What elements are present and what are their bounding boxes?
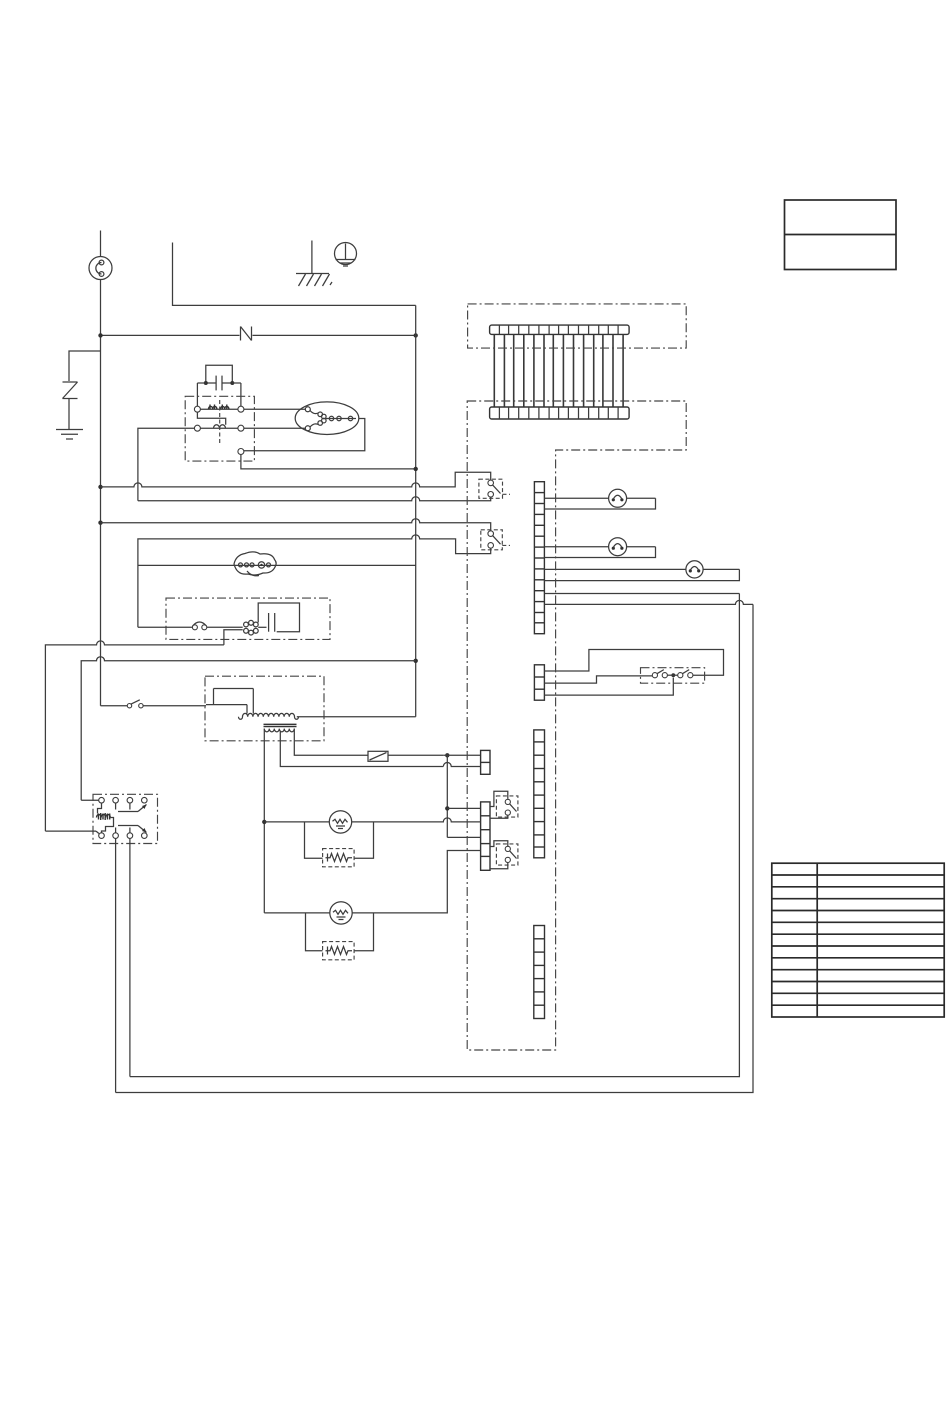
ground: chassis earth xyxy=(296,241,332,287)
wire primary to right bus xyxy=(297,716,416,718)
node: junction x=447.3 y=756.9 xyxy=(445,753,449,757)
wire W3 to door switch SW2 (hop at 415.7) xyxy=(101,519,491,531)
connector CN-C xyxy=(481,750,490,774)
oven lamp LP1 xyxy=(609,489,627,507)
transformer primary winding xyxy=(239,713,299,719)
wire: top loop x=172.5 / y=305.4 xyxy=(173,243,416,306)
relay output wires down xyxy=(115,838,117,1092)
ground: protective earth symbol in circle xyxy=(335,243,357,267)
terminal R2 xyxy=(238,425,244,431)
resistor R2 loop xyxy=(306,913,374,960)
wire feed y=644.9 (hop at 100.5) xyxy=(45,641,224,831)
wire from feed up into convection motor xyxy=(224,630,243,645)
door switch SW1 xyxy=(479,479,510,498)
connector strip CN-A seg3 xyxy=(534,730,545,858)
wire to CN-D cell1 xyxy=(447,807,480,809)
wire R2 to motor xyxy=(244,427,305,429)
relay contact 1 xyxy=(116,803,147,812)
door switch SW2 xyxy=(481,530,510,550)
bottom frame wire inner xyxy=(130,594,740,1077)
oven lamp LP3 loop xyxy=(544,569,739,580)
wire jog between filter rows xyxy=(197,412,225,425)
node: junction x=447.3 y=808.4 xyxy=(445,806,449,810)
relay RY1 box xyxy=(93,794,158,843)
varistor Z1 xyxy=(63,382,78,429)
terminal R1 xyxy=(238,406,244,412)
turntable motor TTM xyxy=(234,552,276,576)
fan motor FM2 xyxy=(329,811,351,833)
node: junction W1 xyxy=(98,485,102,489)
connector strip CN-A seg2 xyxy=(534,665,544,700)
terminal B (filter bottom) xyxy=(238,449,244,455)
wire terminal B down to right bus xyxy=(241,455,416,469)
connector CN-D xyxy=(481,802,490,870)
wire into thermal protector xyxy=(138,626,192,628)
ribbon connector top strip xyxy=(490,325,629,334)
ribbon connector bottom strip xyxy=(490,407,629,419)
wire into relay top-left xyxy=(81,799,99,801)
main switch SW3 xyxy=(101,700,207,708)
wire fan motor FM3 line xyxy=(264,912,330,914)
ribbon wires xyxy=(494,334,623,407)
control board outline (dash-dot) xyxy=(467,401,686,1050)
fan motor FM1 xyxy=(295,402,359,435)
revision box (top right) xyxy=(785,200,897,270)
wire W1 to door switch SW1 (hops at 137.9 and 415.7) xyxy=(101,472,491,487)
capacitor C2 loop xyxy=(258,603,299,632)
wire to CN-D cell3 xyxy=(447,836,480,838)
secondary lead 1 (long, to fan motors) xyxy=(263,729,265,913)
terminal L1 xyxy=(194,406,200,412)
wire W2 from SW1 bottom back left (hop at 415.7) xyxy=(138,497,491,501)
transformer secondary winding xyxy=(264,729,294,732)
wire x=447.3 down xyxy=(446,755,448,837)
wire to connector CN-C top xyxy=(443,754,480,756)
capacitor C1 across filter xyxy=(197,365,241,406)
ground: earth under varistor xyxy=(56,430,83,440)
varistor branch wire xyxy=(69,351,101,381)
bake switch SW4 (double) xyxy=(641,668,705,684)
node: junction W3 xyxy=(98,521,102,525)
node: junction fan tap y=821.9 xyxy=(262,820,266,824)
wire motor return to terminal B xyxy=(244,419,365,451)
secondary lead 2 xyxy=(280,731,443,767)
wire W4 from SW2 bottom to TT branch (hop at 415.7) xyxy=(138,535,491,627)
wire y=604.4 to outer frame (hop at 739.4) xyxy=(544,600,753,604)
connector strip CN-A seg4 xyxy=(534,926,545,1019)
wire R1 to motor xyxy=(244,408,305,410)
wire fan motor FM2 line (hop at 447.3) xyxy=(264,818,480,822)
power plug P1 xyxy=(89,231,112,336)
secondary lead 3 xyxy=(294,729,367,756)
bake relay switch loop wire 3 (center tap) xyxy=(544,678,673,696)
wire into relay bottom-left xyxy=(45,830,96,832)
fuse F2 (boxed) xyxy=(368,751,443,761)
oven lamp LP1 loop xyxy=(544,498,655,509)
node: junction at right bus y=468.9 xyxy=(414,467,418,471)
wire y=766.5 hop at 447.3 into CN-C xyxy=(443,763,480,767)
relay contact 2 xyxy=(116,826,147,833)
wire: mains line y=335.4 with fuse xyxy=(101,334,240,336)
relay coil xyxy=(97,803,114,833)
wire: right bus x=415.7 xyxy=(415,305,417,716)
fuse F1 (N symbol) xyxy=(241,327,252,341)
bake relay switch loop wire 2 xyxy=(544,676,652,683)
transformer core xyxy=(264,724,297,726)
node: junction right bus / mains line xyxy=(414,333,418,337)
display board outline (dash-dot) xyxy=(468,304,687,348)
transformer T1 box xyxy=(205,676,324,741)
convection motor winding xyxy=(244,620,259,635)
wire relay feed y=660.7 (hop at 100.5) xyxy=(81,657,416,801)
relay terminals bottom xyxy=(99,833,105,839)
choke coil row2 xyxy=(200,400,238,444)
noise filter NF1 box xyxy=(185,396,254,461)
micro switch MS1 xyxy=(490,791,518,818)
wire: left bus x=100.5 xyxy=(100,335,102,705)
node: junction left bus / mains line xyxy=(98,333,102,337)
oven lamp LP2 loop xyxy=(544,547,655,558)
oven lamp LP3 xyxy=(686,561,703,578)
wire protector to motor xyxy=(207,626,243,628)
node: junction relay feed on right bus xyxy=(414,659,418,663)
oven lamp LP2 xyxy=(609,538,627,556)
transformer primary leads xyxy=(206,689,253,714)
fan motor FM3 xyxy=(330,902,352,924)
terminal L2 xyxy=(194,425,200,431)
bake relay switch loop wire 1 xyxy=(544,650,723,676)
turntable motor TTM wire xyxy=(138,564,416,566)
micro switch MS2 xyxy=(490,841,518,869)
choke coil L row1 xyxy=(200,405,238,410)
relay terminals top xyxy=(99,797,105,803)
thermal protector TP1 xyxy=(192,622,206,630)
wire y=593.5 to inner frame xyxy=(544,593,739,595)
resistor R1 loop xyxy=(305,822,374,867)
parts table xyxy=(772,863,944,1017)
bottom frame wire outer xyxy=(116,604,753,1092)
wire L2 left to x=137.9 feed xyxy=(138,428,195,501)
connector strip CN-A seg1 xyxy=(534,482,544,634)
convection motor box CM xyxy=(166,598,330,639)
